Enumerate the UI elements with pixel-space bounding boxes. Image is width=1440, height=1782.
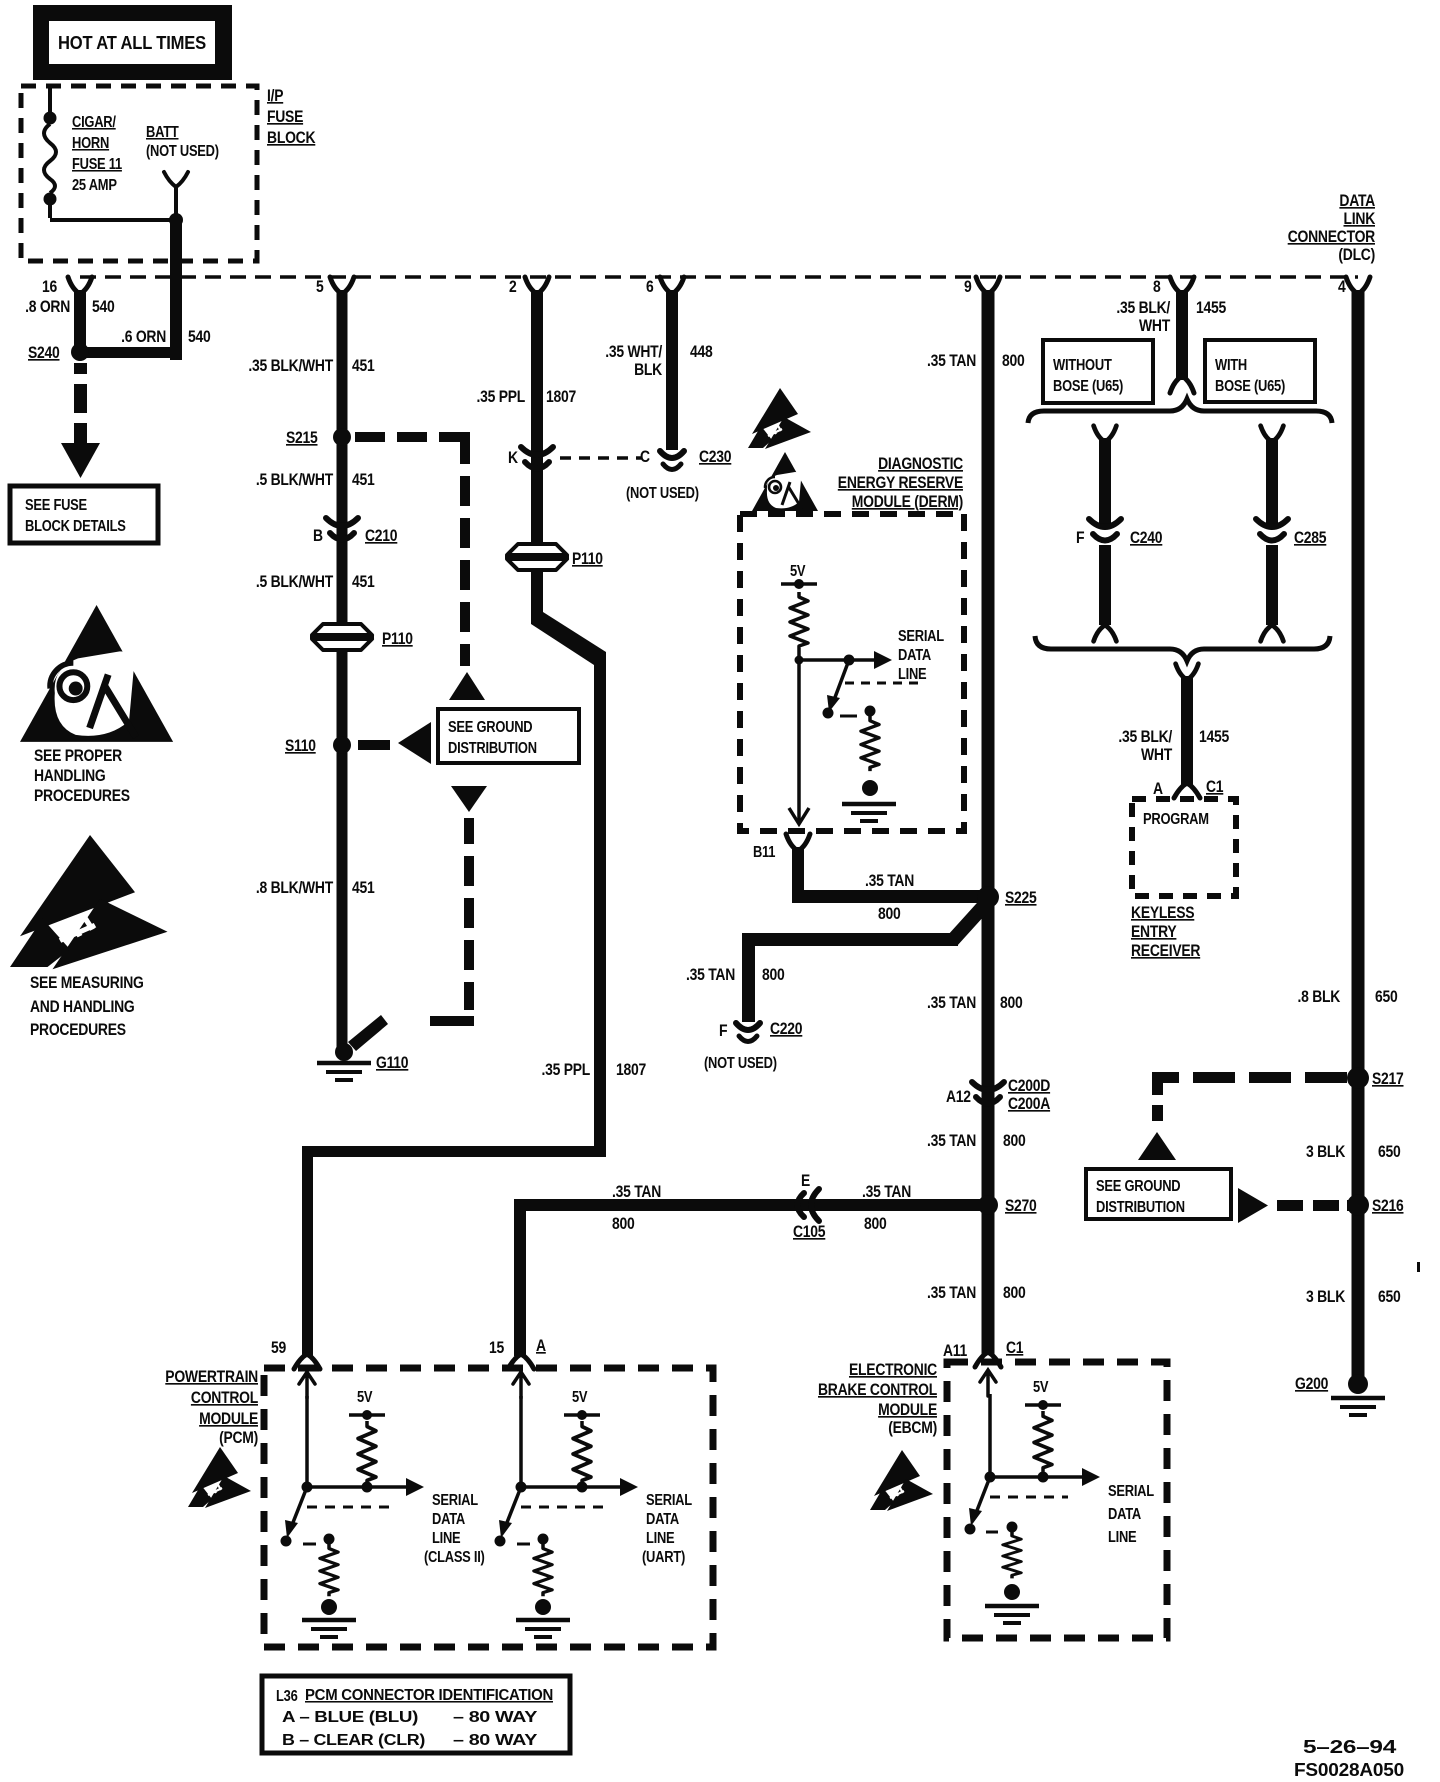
- svg-text:– 80 WAY: – 80 WAY: [453, 1732, 538, 1749]
- svg-text:I/P: I/P: [267, 87, 283, 105]
- connector C105 (E): [798, 1189, 820, 1221]
- C240 labels: [1076, 529, 1162, 547]
- svg-text:A11: A11: [943, 1342, 967, 1360]
- svg-text:451: 451: [352, 879, 375, 897]
- connector C240 (F): [1089, 519, 1121, 541]
- DERM switch contact dots: [823, 708, 834, 719]
- svg-text:C285: C285: [1294, 529, 1326, 547]
- PCM uart pull-up resistor: [573, 1421, 591, 1485]
- B11 connector: [786, 834, 810, 851]
- svg-text:F: F: [719, 1022, 727, 1040]
- airbag triangle (small, above DERM): [752, 452, 818, 511]
- WITHOUT BOSE (U65) box: [1043, 340, 1153, 403]
- svg-text:5: 5: [316, 278, 324, 296]
- svg-text:.35 TAN: .35 TAN: [862, 1183, 911, 1201]
- label .8 BLK 650: [1298, 988, 1341, 1006]
- svg-text:HOT AT ALL TIMES: HOT AT ALL TIMES: [58, 33, 206, 53]
- wire ORN 540 horizontal to S240: [80, 347, 176, 358]
- DERM wire resistor to node: [797, 650, 801, 662]
- splice S217: [1347, 1067, 1369, 1089]
- svg-text:(NOT USED): (NOT USED): [146, 143, 219, 160]
- svg-text:A: A: [536, 1337, 546, 1355]
- svg-text:BOSE (U65): BOSE (U65): [1053, 378, 1123, 395]
- svg-text:CIGAR/: CIGAR/: [72, 114, 117, 131]
- svg-text:S110: S110: [285, 737, 316, 755]
- dashed link arrow to S216: [1277, 1200, 1355, 1211]
- splice S270: [978, 1195, 998, 1215]
- ELECTRONIC BRAKE CONTROL MODULE (EBCM) label: [818, 1361, 937, 1437]
- label .35 BLK/WHT 1455 (lower): [1118, 728, 1172, 764]
- svg-text:LINE: LINE: [898, 666, 926, 683]
- pin 4 connector: [1346, 277, 1370, 294]
- svg-text:BLK: BLK: [634, 361, 662, 379]
- svg-text:KEYLESS: KEYLESS: [1131, 904, 1195, 922]
- svg-text:E: E: [801, 1172, 810, 1190]
- wire fuse to junction: [50, 218, 176, 222]
- svg-text:– 80 WAY: – 80 WAY: [453, 1709, 538, 1726]
- SERIAL DATA LINE (CLASS II) label: [424, 1492, 485, 1566]
- branch wire end hooks (C240): [1094, 625, 1117, 641]
- SEE PROPER HANDLING PROCEDURES label: [34, 747, 130, 805]
- connector C230 (not used): [660, 451, 684, 470]
- DERM contact link dash: [840, 715, 857, 718]
- wire pin 8 down: [1176, 290, 1188, 380]
- svg-text:A12: A12: [946, 1088, 971, 1106]
- branch wire end hooks (C285): [1261, 625, 1284, 641]
- svg-text:L36: L36: [276, 1688, 298, 1705]
- grommet P110 (pin2): [505, 544, 569, 570]
- svg-text:WHT: WHT: [1141, 746, 1172, 764]
- svg-text:P110: P110: [572, 550, 603, 568]
- ESD triangle (small, above DERM): [748, 388, 811, 449]
- svg-text:.35 TAN: .35 TAN: [612, 1183, 661, 1201]
- PCM uart wire down: [519, 1396, 523, 1487]
- I/P FUSE BLOCK label: [267, 87, 316, 147]
- svg-text:SEE GROUND: SEE GROUND: [448, 719, 532, 736]
- svg-text:DATA: DATA: [1339, 192, 1375, 210]
- label .35 PPL 1807 (2): [542, 1061, 647, 1079]
- EBCM terminator dot: [1004, 1584, 1020, 1600]
- label .35 PPL 1807: [477, 388, 577, 406]
- svg-text:650: 650: [1375, 988, 1398, 1006]
- C200 labels: [946, 1077, 1050, 1113]
- svg-text:PROCEDURES: PROCEDURES: [34, 787, 130, 805]
- svg-text:3 BLK: 3 BLK: [1306, 1288, 1345, 1306]
- svg-text:C230: C230: [699, 448, 731, 466]
- svg-text:SEE FUSE: SEE FUSE: [25, 497, 87, 514]
- svg-text:S240: S240: [28, 344, 60, 362]
- svg-text:P110: P110: [382, 630, 413, 648]
- svg-text:HORN: HORN: [72, 135, 109, 152]
- PCM uart contact dots: [495, 1536, 506, 1547]
- svg-text:ELECTRONIC: ELECTRONIC: [849, 1361, 937, 1379]
- svg-text:C1: C1: [1206, 778, 1223, 796]
- svg-text:S217: S217: [1372, 1070, 1404, 1088]
- svg-text:RECEIVER: RECEIVER: [1131, 942, 1201, 960]
- svg-text:8: 8: [1153, 278, 1161, 296]
- dashed link K to C230: [560, 456, 642, 460]
- svg-text:800: 800: [762, 966, 785, 984]
- DERM pull-up resistor: [790, 592, 808, 650]
- EBCM 5V supply: [1025, 1400, 1061, 1410]
- svg-text:.5 BLK/WHT: .5 BLK/WHT: [256, 471, 333, 489]
- splice S110: [333, 736, 351, 754]
- DERM dashed box: [740, 514, 964, 831]
- fuse CIGAR/HORN FUSE 11: [44, 88, 57, 218]
- svg-text:5V: 5V: [357, 1389, 373, 1406]
- DERM serial data arrow: [799, 651, 892, 669]
- svg-text:DIAGNOSTIC: DIAGNOSTIC: [878, 455, 963, 473]
- svg-text:5V: 5V: [1033, 1379, 1049, 1396]
- A C1 labels: [1153, 778, 1223, 798]
- svg-text:CONTROL: CONTROL: [191, 1389, 258, 1407]
- svg-text:650: 650: [1378, 1143, 1401, 1161]
- wire pin 5 down to G110: [337, 290, 348, 1050]
- pin 16 connector: [68, 277, 92, 294]
- svg-text:S225: S225: [1005, 889, 1037, 907]
- svg-text:C1: C1: [1006, 1339, 1023, 1357]
- svg-text:6: 6: [646, 278, 654, 296]
- label .6 ORN 540: [121, 328, 210, 346]
- A11 connector: [975, 1352, 1001, 1367]
- svg-text:1807: 1807: [546, 388, 576, 406]
- svg-text:800: 800: [1002, 352, 1025, 370]
- svg-text:.5 BLK/WHT: .5 BLK/WHT: [256, 573, 333, 591]
- label .35 TAN 800 (C220 branch): [686, 966, 785, 984]
- svg-text:DISTRIBUTION: DISTRIBUTION: [1096, 1199, 1185, 1216]
- svg-text:(NOT USED): (NOT USED): [704, 1055, 777, 1072]
- svg-text:S216: S216: [1372, 1197, 1404, 1215]
- svg-text:1455: 1455: [1196, 299, 1226, 317]
- svg-text:FUSE: FUSE: [267, 108, 303, 126]
- svg-text:5V: 5V: [790, 563, 806, 580]
- svg-text:C: C: [640, 448, 650, 466]
- PCM uart switch arm: [499, 1487, 521, 1538]
- svg-text:(DLC): (DLC): [1338, 246, 1375, 264]
- svg-text:LINK: LINK: [1344, 210, 1376, 228]
- svg-text:DATA: DATA: [898, 647, 931, 664]
- PCM uart terminator dot: [535, 1599, 551, 1615]
- PCM uart node and arrow: [516, 1478, 639, 1496]
- branch wire with-Bose: [1266, 438, 1278, 528]
- svg-text:.35 WHT/: .35 WHT/: [605, 343, 662, 361]
- PCM class2 ground: [302, 1620, 356, 1637]
- wire pin 4 down to G200: [1352, 290, 1365, 1380]
- svg-text:.35 BLK/WHT: .35 BLK/WHT: [248, 357, 333, 375]
- PCM class2 node and arrow: [302, 1478, 425, 1496]
- svg-text:.35 TAN: .35 TAN: [927, 1132, 976, 1150]
- svg-text:B: B: [313, 527, 323, 545]
- wire pin 2 down: [531, 290, 543, 620]
- PCM class2 switch arm: [285, 1487, 307, 1538]
- fuse value label: [72, 114, 122, 194]
- SEE FUSE BLOCK DETAILS box: [10, 486, 158, 543]
- option merge underbrace: [1035, 636, 1330, 661]
- wire PPL down x600: [594, 655, 606, 1155]
- connector C285: [1256, 519, 1288, 541]
- EBCM terminator resistor: [1003, 1532, 1021, 1578]
- svg-text:.35 TAN: .35 TAN: [686, 966, 735, 984]
- wire S225 to C220 branch: [749, 899, 991, 1022]
- svg-text:800: 800: [864, 1215, 887, 1233]
- junction dot in fuse block: [169, 213, 183, 227]
- EBCM wire down: [988, 1394, 992, 1477]
- svg-text:15: 15: [489, 1339, 504, 1357]
- DERM ground: [842, 804, 896, 821]
- PCM uart terminator resistor: [534, 1544, 552, 1596]
- wire pin 16 down: [74, 290, 86, 352]
- connector C210 (B): [326, 518, 358, 540]
- wire B11 down and right to S225: [792, 847, 980, 903]
- BATT (NOT USED) label: [146, 124, 219, 160]
- svg-text:.35 TAN: .35 TAN: [927, 1284, 976, 1302]
- svg-text:540: 540: [188, 328, 211, 346]
- arrow down below ground distribution box: [451, 786, 487, 812]
- svg-text:WITH: WITH: [1215, 357, 1247, 374]
- svg-text:.35 TAN: .35 TAN: [927, 352, 976, 370]
- PCM class2 wire down: [305, 1396, 309, 1487]
- SERIAL DATA LINE (UART) label: [642, 1492, 692, 1566]
- svg-text:5–26–94: 5–26–94: [1303, 1737, 1396, 1757]
- PCM uart 5V supply: [564, 1410, 600, 1420]
- svg-text:C200A: C200A: [1008, 1095, 1050, 1113]
- svg-text:3 BLK: 3 BLK: [1306, 1143, 1345, 1161]
- svg-text:LINE: LINE: [646, 1530, 674, 1547]
- DERM pin exit arrow: [789, 808, 809, 824]
- dashed arrow to fuse details: [61, 363, 100, 478]
- svg-text:800: 800: [878, 905, 901, 923]
- BATT terminal Y: [164, 172, 188, 220]
- svg-text:SERIAL: SERIAL: [1108, 1483, 1154, 1500]
- airbag warning triangle (large): [20, 605, 173, 742]
- PCM dashed box: [264, 1368, 713, 1647]
- EBCM switch dashed line: [990, 1496, 1068, 1499]
- svg-text:LINE: LINE: [432, 1530, 460, 1547]
- EBCM contact dash: [986, 1531, 998, 1534]
- DERM wire node to B11: [797, 660, 801, 822]
- dashed branch S215 to ground distribution: [355, 432, 470, 666]
- dashed branch down to G110: [348, 818, 474, 1051]
- stray tick mark: [1417, 1262, 1420, 1272]
- svg-text:C240: C240: [1130, 529, 1162, 547]
- EBCM node and arrow: [985, 1468, 1101, 1486]
- connector C220 (not used): [736, 1023, 760, 1042]
- ground G200: [1295, 1374, 1385, 1415]
- wire S270 left through C105 to PCM pin 15: [514, 1199, 981, 1356]
- label .35 TAN 800 (right of C105): [862, 1183, 911, 1233]
- svg-text:SEE MEASURING: SEE MEASURING: [30, 974, 144, 992]
- splice S225: [977, 886, 999, 908]
- pin 59 connector: [294, 1354, 320, 1369]
- PCM class2 contact dash: [303, 1543, 316, 1546]
- pin 6 connector: [660, 277, 684, 294]
- arrow up above ground distribution box: [449, 672, 485, 700]
- option split overbrace: [1028, 399, 1332, 423]
- wire pin 6 down: [666, 290, 678, 450]
- connector K on pin2 wire: [521, 447, 553, 469]
- pin 15 connector: [508, 1354, 534, 1369]
- pin 8 connector: [1170, 277, 1194, 294]
- label .8 ORN 540: [25, 298, 114, 316]
- svg-text:.35 TAN: .35 TAN: [927, 994, 976, 1012]
- label .35 BLK/WHT 451: [248, 357, 374, 375]
- svg-text:448: 448: [690, 343, 713, 361]
- svg-text:SEE PROPER: SEE PROPER: [34, 747, 122, 765]
- EBCM pull-up resistor: [1034, 1411, 1052, 1472]
- PCM uart ground: [516, 1620, 570, 1637]
- svg-text:SEE GROUND: SEE GROUND: [1096, 1178, 1180, 1195]
- svg-text:(EBCM): (EBCM): [888, 1419, 937, 1437]
- svg-text:K: K: [508, 449, 518, 467]
- dashed branch S217 to ground distribution: [1152, 1072, 1347, 1121]
- svg-text:MODULE: MODULE: [878, 1401, 937, 1419]
- svg-text:.6 ORN: .6 ORN: [121, 328, 166, 346]
- splice S216: [1347, 1194, 1369, 1216]
- DERM switch dashed throw line: [845, 682, 920, 685]
- svg-text:LINE: LINE: [1108, 1529, 1136, 1546]
- label .35 TAN 800 (S270-A11): [927, 1284, 1026, 1302]
- wire PPL horizontal to x307: [302, 1146, 606, 1157]
- svg-text:1807: 1807: [616, 1061, 646, 1079]
- PCM class2 pull-up resistor: [358, 1421, 376, 1485]
- svg-text:DATA: DATA: [432, 1511, 465, 1528]
- svg-text:.35 BLK/: .35 BLK/: [1118, 728, 1172, 746]
- svg-text:DATA: DATA: [646, 1511, 679, 1528]
- svg-text:(UART): (UART): [642, 1549, 685, 1566]
- svg-text:451: 451: [352, 573, 375, 591]
- DERM terminator dot: [862, 780, 878, 796]
- arrow left into S110: [398, 722, 431, 764]
- svg-text:G110: G110: [376, 1054, 408, 1072]
- C230 labels: [640, 448, 731, 466]
- dashed stub S110 right: [358, 740, 390, 750]
- PROGRAM dashed box: [1132, 799, 1236, 896]
- svg-text:AND HANDLING: AND HANDLING: [30, 998, 135, 1016]
- svg-text:650: 650: [1378, 1288, 1401, 1306]
- EBCM contact dots: [965, 1524, 976, 1535]
- svg-text:1455: 1455: [1199, 728, 1229, 746]
- svg-text:BOSE (U65): BOSE (U65): [1215, 378, 1285, 395]
- svg-text:F: F: [1076, 529, 1084, 547]
- POWERTRAIN CONTROL MODULE (PCM) label: [165, 1368, 258, 1447]
- label .35 TAN 800 (S225-C200): [927, 994, 1023, 1012]
- svg-text:5V: 5V: [572, 1389, 588, 1406]
- branch wire without-Bose start hooks: [1094, 426, 1117, 442]
- pin 5 connector: [330, 277, 354, 294]
- svg-text:CONNECTOR: CONNECTOR: [1288, 228, 1376, 246]
- merged wire start hooks: [1176, 664, 1199, 680]
- svg-text:PROGRAM: PROGRAM: [1143, 811, 1209, 828]
- svg-text:(NOT USED): (NOT USED): [626, 485, 699, 502]
- C220 labels: [719, 1020, 802, 1040]
- svg-text:SERIAL: SERIAL: [646, 1492, 692, 1509]
- ground G110: [317, 1043, 408, 1080]
- SEE GROUND DISTRIBUTION box (left): [438, 709, 579, 763]
- C105 labels: [793, 1172, 825, 1241]
- DERM 5V supply: [781, 579, 817, 589]
- merged wire down to keyless receiver: [1181, 676, 1193, 785]
- svg-text:FUSE 11: FUSE 11: [72, 156, 122, 173]
- DERM node junction: [795, 656, 804, 665]
- svg-text:G200: G200: [1295, 1375, 1328, 1393]
- DIAGNOSTIC ENERGY RESERVE MODULE (DERM) label: [838, 455, 964, 511]
- svg-text:800: 800: [1003, 1132, 1026, 1150]
- label .35 TAN 800 (C200-S270): [927, 1132, 1026, 1150]
- svg-text:59: 59: [271, 1339, 286, 1357]
- svg-text:.35 TAN: .35 TAN: [865, 872, 914, 890]
- branch wire with-Bose lower: [1266, 545, 1278, 625]
- svg-text:DISTRIBUTION: DISTRIBUTION: [448, 740, 537, 757]
- svg-text:A: A: [1153, 780, 1163, 798]
- DLC dashed header line: [80, 275, 1358, 279]
- wire PPL down to PCM pin 59: [302, 1146, 313, 1356]
- wire pin2 jog to x600: [531, 612, 606, 665]
- connector A C1 keyless: [1174, 783, 1200, 798]
- svg-text:.35 PPL: .35 PPL: [477, 388, 526, 406]
- svg-text:MODULE: MODULE: [199, 1410, 258, 1428]
- svg-text:BATT: BATT: [146, 124, 179, 141]
- branch wire without-Bose lower: [1099, 545, 1111, 625]
- svg-text:.8 BLK/WHT: .8 BLK/WHT: [256, 879, 333, 897]
- svg-text:FS0028A050: FS0028A050: [1294, 1760, 1404, 1780]
- DERM switch arm: [827, 660, 849, 712]
- svg-text:SERIAL: SERIAL: [432, 1492, 478, 1509]
- KEYLESS ENTRY RECEIVER label: [1131, 904, 1201, 960]
- label .35 TAN 800 (left of C105): [612, 1183, 661, 1233]
- SEE GROUND DISTRIBUTION box (right): [1086, 1169, 1231, 1219]
- svg-text:800: 800: [612, 1215, 635, 1233]
- svg-text:9: 9: [964, 278, 972, 296]
- svg-text:BRAKE CONTROL: BRAKE CONTROL: [818, 1381, 937, 1399]
- I/P fuse block dashed box: [21, 86, 257, 261]
- svg-text:POWERTRAIN: POWERTRAIN: [165, 1368, 258, 1386]
- svg-text:ENTRY: ENTRY: [1131, 923, 1177, 941]
- PCM uart contact dash: [517, 1543, 530, 1546]
- svg-text:C200D: C200D: [1008, 1077, 1050, 1095]
- svg-text:B – CLEAR (CLR): B – CLEAR (CLR): [282, 1732, 425, 1749]
- ESD triangle (small, PCM): [188, 1447, 251, 1508]
- svg-text:MODULE (DERM): MODULE (DERM): [852, 493, 963, 511]
- pin 9 connector: [976, 277, 1000, 294]
- PCM class2 switch dashed line: [307, 1506, 390, 1509]
- wire pin 9 down to EBCM: [982, 290, 995, 1355]
- svg-text:.8 BLK: .8 BLK: [1298, 988, 1341, 1006]
- arrow right toward S216: [1238, 1188, 1268, 1223]
- svg-text:800: 800: [1003, 1284, 1026, 1302]
- svg-text:SERIAL: SERIAL: [898, 628, 944, 645]
- svg-text:HANDLING: HANDLING: [34, 767, 106, 785]
- arrow up above right ground distribution box: [1138, 1132, 1176, 1160]
- splice S215: [333, 428, 351, 446]
- SERIAL DATA LINE label (EBCM): [1108, 1483, 1154, 1546]
- svg-text:C210: C210: [365, 527, 397, 545]
- svg-text:25 AMP: 25 AMP: [72, 177, 117, 194]
- splice S240: [71, 343, 89, 361]
- label .5 BLK/WHT 451 (2): [256, 573, 375, 591]
- svg-text:2: 2: [509, 278, 517, 296]
- WITH BOSE (U65) box: [1205, 340, 1315, 402]
- svg-text:PCM CONNECTOR IDENTIFICATION: PCM CONNECTOR IDENTIFICATION: [305, 1687, 553, 1704]
- label .5 BLK/WHT 451: [256, 471, 375, 489]
- svg-text:S215: S215: [286, 429, 318, 447]
- PCM class2 terminator dot: [321, 1599, 337, 1615]
- DERM terminator resistor: [861, 716, 879, 771]
- svg-text:540: 540: [92, 298, 115, 316]
- svg-text:800: 800: [1000, 994, 1023, 1012]
- svg-text:C105: C105: [793, 1223, 825, 1241]
- C210 labels: [313, 527, 397, 545]
- svg-text:A – BLUE (BLU): A – BLUE (BLU): [282, 1709, 418, 1726]
